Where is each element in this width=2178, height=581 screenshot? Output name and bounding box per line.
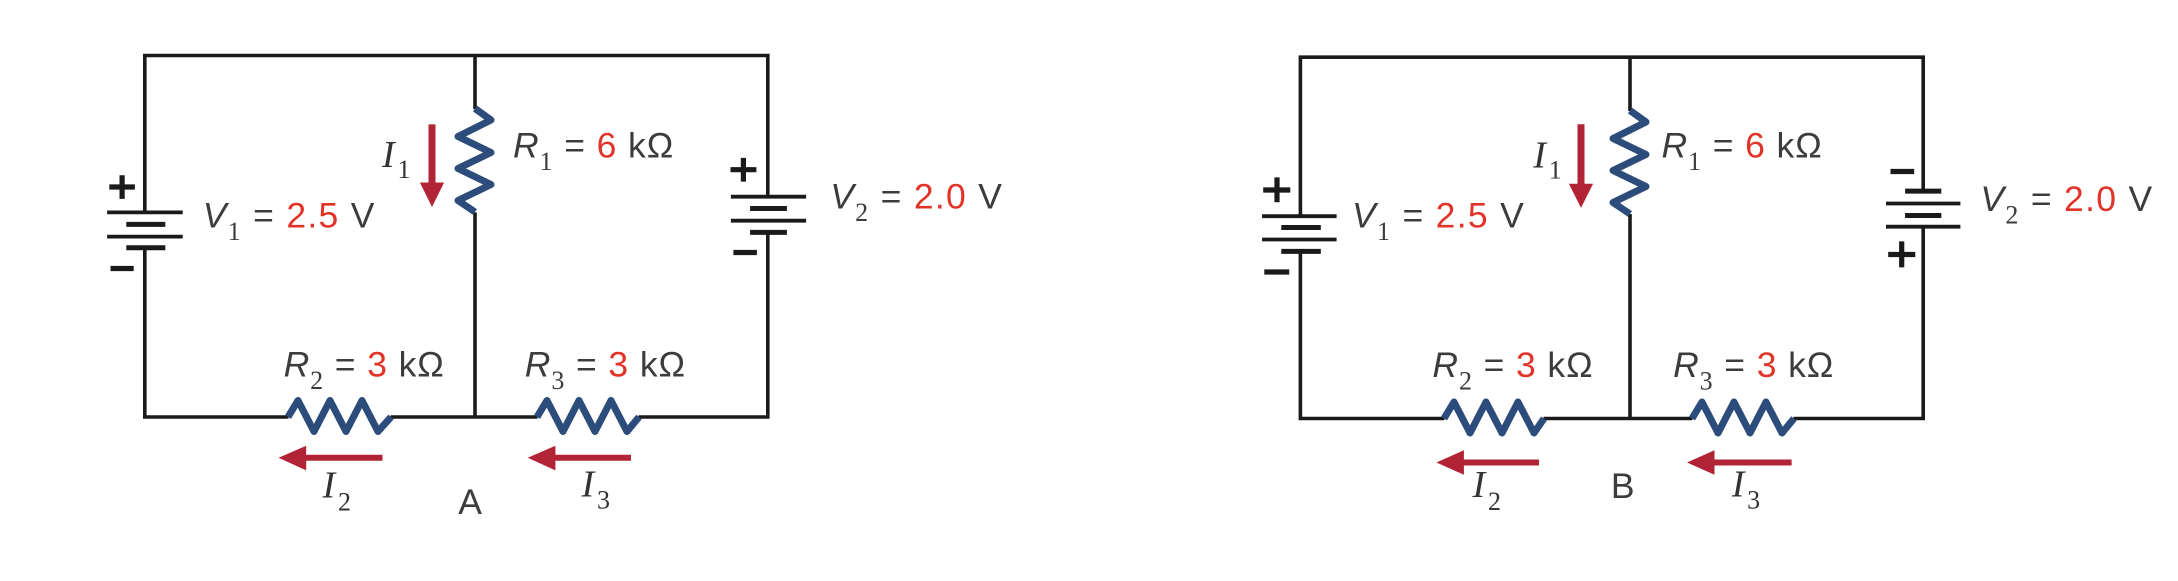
resistor R2 circuit A (horizontal zigzag) (288, 401, 391, 432)
wire: circuit B middle branch lower segment (1628, 214, 1632, 419)
resistor R1 circuit A (vertical zigzag) (458, 109, 491, 213)
battery V2 circuit B: plus sign (1888, 241, 1915, 267)
svg-text:I1: I1 (1532, 135, 1562, 185)
battery V1 circuit B: plus sign (1263, 177, 1290, 202)
battery V2 circuit A: long plate lower (731, 219, 806, 223)
wire: circuit A middle branch lower segment (473, 212, 477, 417)
wire: circuit A left rail lower + bottom rail to R2 (145, 248, 289, 417)
svg-text:I1: I1 (381, 134, 411, 184)
current arrow I2 circuit A head (279, 446, 307, 471)
battery V1 circuit A: plus sign (109, 175, 135, 199)
current arrow I2 circuit B head (1436, 450, 1464, 474)
battery V1 circuit B: long plate lower (1262, 238, 1337, 242)
svg-text:V2 = 2.0 V: V2 = 2.0 V (1980, 179, 2153, 230)
svg-text:V1 = 2.5 V: V1 = 2.5 V (1352, 195, 1525, 246)
resistor R1 circuit B (vertical zigzag) (1613, 111, 1646, 215)
wire: circuit A middle branch upper segment (473, 56, 477, 110)
battery V1 circuit A: short plate upper (126, 222, 165, 227)
svg-text:R3 = 3 kΩ: R3 = 3 kΩ (525, 345, 686, 396)
battery V2 circuit A: long plate top (731, 195, 806, 199)
battery V1 circuit B: short plate bottom (1281, 249, 1321, 254)
svg-text:B: B (1611, 466, 1635, 506)
battery V2 circuit B: long plate bottom (1886, 225, 1960, 229)
current arrow I3 circuit A (leftward) shaft (552, 455, 631, 461)
wire: circuit B bottom rail from R3 + right rail lower (1794, 227, 1924, 419)
resistor R2 circuit B (horizontal zigzag) (1444, 402, 1544, 433)
battery V2 circuit B: minus sign (1891, 169, 1915, 174)
current arrow I1 circuit A head (420, 183, 444, 208)
current arrow I2 circuit B (leftward) shaft (1461, 460, 1539, 466)
svg-text:R1 = 6 kΩ: R1 = 6 kΩ (1662, 126, 1823, 177)
svg-text:R1 = 6 kΩ: R1 = 6 kΩ (513, 126, 674, 177)
svg-text:A: A (458, 482, 482, 522)
svg-text:I2: I2 (1472, 464, 1502, 516)
wire: circuit B left rail lower + bottom rail to R2 (1300, 251, 1444, 418)
current arrow I1 circuit B (downward) shaft (1578, 124, 1585, 187)
svg-text:V2 = 2.0 V: V2 = 2.0 V (830, 177, 1003, 228)
battery V2 circuit B: short plate lower (1905, 213, 1941, 218)
wire: circuit A bottom rail between R2 and R3 (through node A) (391, 415, 538, 419)
resistor R3 circuit A (horizontal zigzag) (537, 401, 639, 432)
battery V1 circuit B: short plate upper (1281, 225, 1321, 230)
battery V1 circuit B: minus sign (1264, 269, 1289, 274)
wire: circuit B middle branch upper segment (1628, 57, 1632, 111)
svg-text:I3: I3 (581, 464, 611, 515)
battery V1 circuit A: long plate lower (107, 235, 183, 239)
svg-text:R2 = 3 kΩ: R2 = 3 kΩ (284, 345, 445, 396)
battery V1 circuit A: minus sign (111, 266, 134, 271)
svg-text:V1 = 2.5 V: V1 = 2.5 V (203, 196, 376, 247)
battery V2 circuit A: plus sign (731, 158, 757, 182)
battery V1 circuit A: short plate bottom (126, 245, 165, 250)
current arrow I3 circuit B (leftward) shaft (1714, 460, 1792, 466)
current arrow I3 circuit B head (1687, 450, 1715, 474)
current arrow I1 circuit B head (1569, 184, 1593, 208)
battery V2 circuit A: short plate bottom (750, 230, 787, 235)
wire: circuit A left rail + top rail + right rail (upper parts) (145, 56, 768, 213)
wire: circuit B left rail + top rail + right rail (upper parts) (1300, 57, 1923, 216)
current arrow I1 circuit A (downward) shaft (429, 124, 436, 186)
battery V1 circuit A: long plate top (107, 210, 183, 214)
resistor R3 circuit B (horizontal zigzag) (1692, 402, 1794, 433)
battery V2 circuit B: long plate upper (1886, 202, 1960, 206)
current arrow I2 circuit A (leftward) shaft (303, 455, 383, 461)
current arrow I3 circuit A head (528, 446, 556, 471)
svg-text:R3 = 3 kΩ: R3 = 3 kΩ (1673, 345, 1834, 396)
svg-text:I2: I2 (322, 465, 352, 517)
battery V2 circuit B (reversed): short plate top (1905, 189, 1941, 194)
battery V1 circuit B: long plate top (1262, 214, 1337, 218)
wire: circuit A bottom rail from R3 + right rail lower (639, 232, 768, 417)
svg-text:R2 = 3 kΩ: R2 = 3 kΩ (1432, 345, 1593, 396)
battery V2 circuit A: short plate upper (750, 206, 787, 211)
battery V2 circuit A: minus sign (733, 250, 757, 255)
svg-text:I3: I3 (1731, 464, 1761, 515)
wire: circuit B bottom rail between R2 and R3 (through node B) (1544, 417, 1693, 421)
